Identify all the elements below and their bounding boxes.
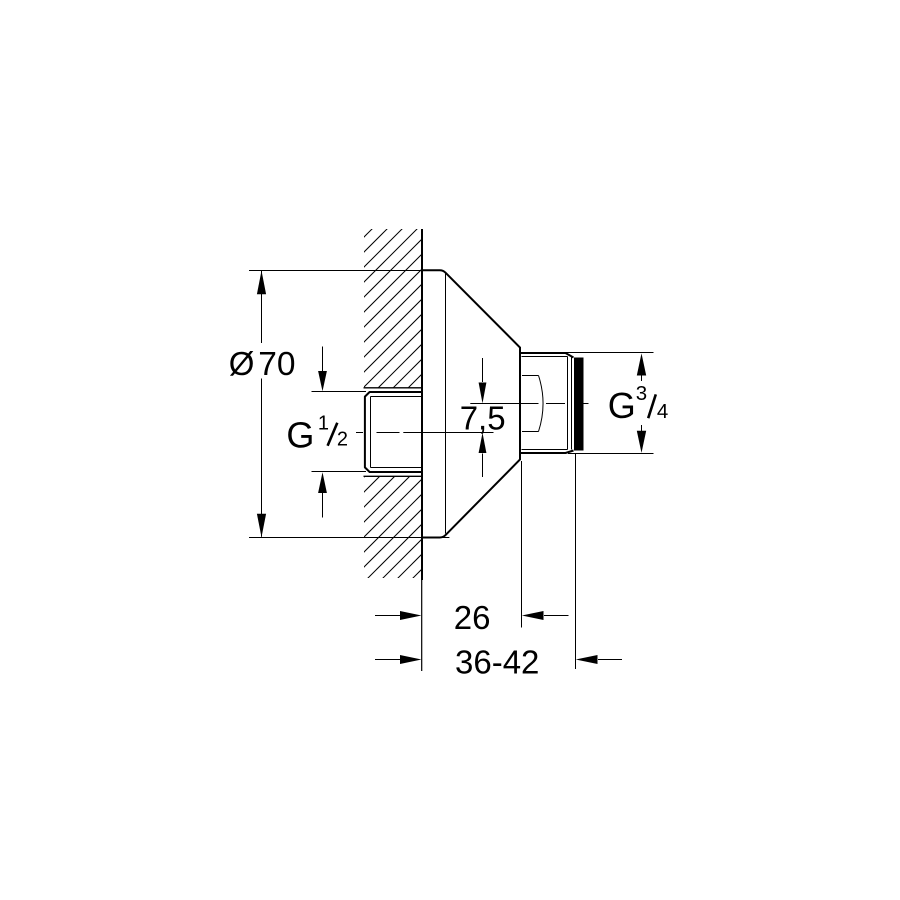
svg-text:2: 2	[337, 429, 348, 451]
svg-text:Ø: Ø	[229, 345, 255, 382]
svg-text:G: G	[286, 415, 314, 456]
svg-text:4: 4	[657, 400, 668, 423]
svg-text:26: 26	[454, 599, 491, 636]
svg-text:36-42: 36-42	[455, 643, 539, 680]
svg-text:3: 3	[636, 382, 647, 405]
svg-text:1: 1	[318, 412, 329, 434]
svg-text:70: 70	[258, 346, 295, 383]
svg-text:7,5: 7,5	[460, 399, 506, 436]
svg-text:G: G	[608, 385, 636, 426]
